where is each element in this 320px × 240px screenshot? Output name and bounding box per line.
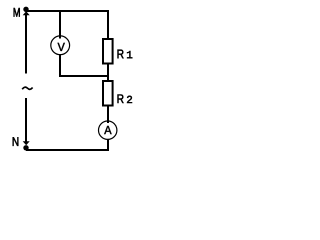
wire left lower segment from source gap down to N <box>25 98 27 142</box>
label R2 <box>118 94 124 103</box>
wire R2 to ammeter <box>107 106 109 124</box>
wire top rail from M to right branch <box>26 10 108 12</box>
wire voltmeter drop from top rail <box>59 11 61 39</box>
label M <box>14 8 20 17</box>
resistor R2 <box>103 81 113 106</box>
AC source tilde symbol <box>22 87 32 89</box>
ammeter U2 <box>99 121 117 140</box>
wire right branch down to R1 <box>107 10 109 39</box>
label N <box>13 137 19 146</box>
wire left upper segment from M down to source gap <box>25 13 27 74</box>
wire horizontal link voltmeter to R1/R2 node <box>59 75 108 77</box>
label R1 <box>118 50 124 59</box>
wire below voltmeter down to horizontal link <box>59 54 61 76</box>
voltmeter U1 <box>51 35 70 55</box>
wire bottom rail to N <box>26 149 108 151</box>
wire ammeter to bottom rail <box>107 139 109 151</box>
resistor R1 <box>103 39 113 64</box>
wire R1 to R2 through node <box>107 64 109 82</box>
terminal M <box>23 7 30 16</box>
terminal N <box>23 141 30 150</box>
